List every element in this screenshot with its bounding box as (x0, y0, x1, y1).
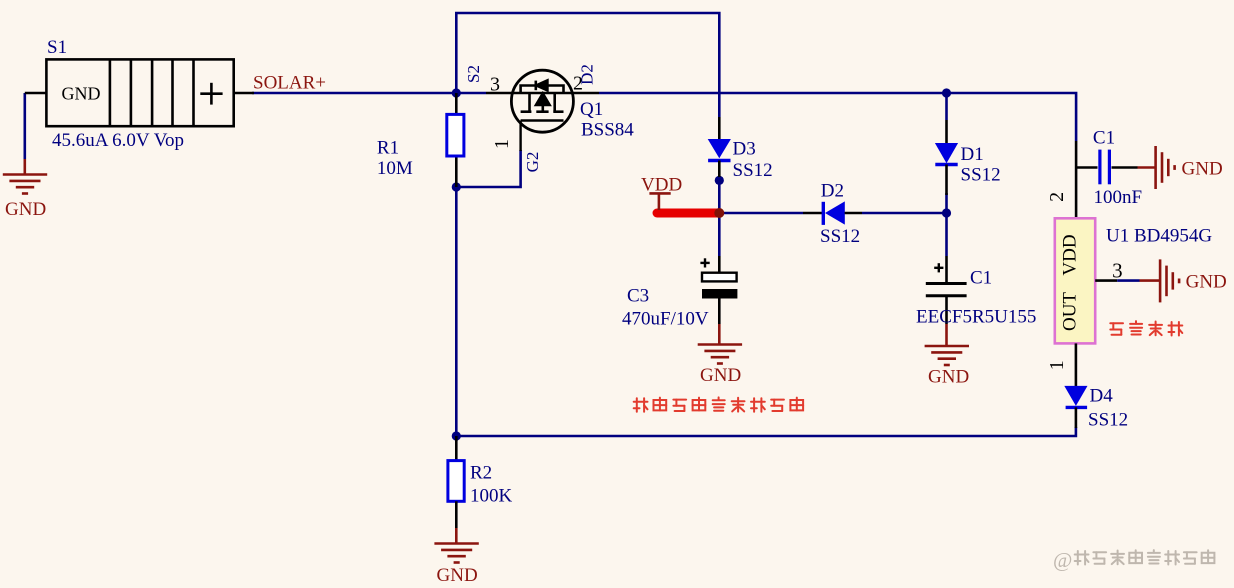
watermark (1053, 548, 1214, 572)
VDD net red highlight (657, 209, 719, 218)
svg-text:VDD: VDD (641, 175, 682, 196)
wire D1 cathode to C1 node (945, 193, 948, 256)
svg-text:GND: GND (5, 199, 46, 220)
wire D2 to D1 junction (862, 212, 947, 215)
wire VDD node to D2 (719, 212, 803, 215)
svg-text:SS12: SS12 (820, 226, 860, 247)
ground at C1 100nF (1138, 166, 1156, 169)
diode D3 SS12 (718, 117, 721, 140)
ground below C1 (945, 324, 948, 346)
svg-text:2: 2 (1046, 192, 1068, 202)
transistor Q1 BSS84 (486, 70, 599, 151)
svg-text:R2: R2 (470, 463, 492, 484)
svg-text:D2: D2 (578, 64, 597, 85)
svg-text:100K: 100K (470, 486, 513, 507)
junction rail/D1 (942, 88, 951, 97)
VDD power symbol (649, 193, 670, 210)
svg-text:C1: C1 (970, 268, 992, 289)
diode D2 SS12 (803, 212, 823, 215)
wire SOLAR+ from S1 to Q1 source (252, 92, 486, 95)
resistor R1 (455, 93, 458, 114)
svg-text:SS12: SS12 (733, 160, 773, 181)
svg-text:Q1: Q1 (580, 99, 603, 120)
svg-text:SS12: SS12 (961, 165, 1001, 186)
svg-text:D4: D4 (1090, 386, 1114, 407)
capacitor C1 EECF5R5U155 (945, 256, 948, 284)
ground below R2 (455, 528, 458, 544)
bottom rail wire (456, 427, 1076, 436)
svg-text:45.6uA 6.0V Vop: 45.6uA 6.0V Vop (52, 130, 184, 151)
junction SOLAR+/R1/Q1 (452, 88, 461, 97)
junction bottom rail/R2 (452, 431, 461, 440)
wire R1 junction to bottom rail (455, 187, 458, 436)
wire Q1 gate to R1 bottom junction (456, 150, 520, 187)
svg-text:BSS84: BSS84 (581, 120, 634, 141)
svg-text:3: 3 (490, 74, 500, 96)
svg-text:R1: R1 (377, 138, 399, 159)
svg-text:GND: GND (700, 365, 741, 386)
svg-text:GND: GND (437, 565, 478, 586)
junction D3 cathode (715, 176, 724, 185)
wire SOLAR+ bypass to D3 (456, 13, 719, 117)
svg-text:D2: D2 (821, 181, 844, 202)
svg-text:GND: GND (62, 84, 101, 104)
wire S1 to ground (23, 93, 26, 159)
svg-text:EECF5R5U155: EECF5R5U155 (916, 307, 1036, 328)
wire D3 cathode to VDD node (718, 176, 721, 213)
svg-text:100nF: 100nF (1094, 187, 1143, 208)
ground at U1 pin 3 (1140, 279, 1161, 282)
note: tantalum cap for fast startup (red chinese) (634, 397, 803, 411)
svg-text:SOLAR+: SOLAR+ (253, 73, 326, 94)
pin 1 wire (1075, 343, 1078, 386)
wire Q1 drain to U1 VDD corner (599, 93, 1076, 141)
svg-text:D1: D1 (961, 144, 984, 165)
junction R1/gate (452, 182, 461, 191)
resistor R2 (455, 436, 458, 461)
svg-text:U1 BD4954G: U1 BD4954G (1106, 226, 1212, 247)
wire VDD node to C3 (718, 213, 721, 256)
svg-text:GND: GND (928, 367, 969, 388)
svg-text:1: 1 (491, 139, 513, 149)
capacitor C1 100nF (1076, 166, 1097, 169)
junction VDD node (714, 208, 724, 218)
solar cell S1 (25, 59, 254, 126)
svg-text:S1: S1 (47, 37, 67, 58)
svg-text:GND: GND (1186, 272, 1227, 293)
svg-text:OUT: OUT (1060, 292, 1081, 331)
wire SOLAR+ rail to D1 anode (945, 93, 948, 120)
svg-text:GND: GND (1182, 159, 1223, 180)
svg-text:470uF/10V: 470uF/10V (622, 309, 709, 330)
svg-text:G2: G2 (523, 152, 542, 173)
note: overvoltage protection (red chinese) (1110, 321, 1182, 335)
IC U1 BD4954G (1075, 141, 1078, 218)
svg-text:3: 3 (1112, 259, 1123, 283)
svg-text:VDD: VDD (1060, 234, 1081, 275)
junction D2/D1/C1 (942, 208, 951, 217)
diode D4 SS12 (1064, 386, 1087, 406)
capacitor C3 470uF/10V (718, 256, 721, 273)
svg-text:10M: 10M (377, 158, 413, 179)
svg-text:1: 1 (1046, 360, 1068, 370)
svg-text:@: @ (1053, 548, 1072, 572)
svg-text:S2: S2 (464, 65, 483, 83)
svg-text:D3: D3 (733, 139, 756, 160)
svg-text:SS12: SS12 (1088, 410, 1128, 431)
pin 3 wire (1095, 279, 1117, 282)
ground below S1 (23, 159, 26, 175)
svg-text:C1: C1 (1093, 128, 1115, 149)
svg-text:C3: C3 (627, 286, 649, 307)
diode D1 SS12 (945, 120, 948, 144)
ground below C3 (718, 324, 721, 345)
